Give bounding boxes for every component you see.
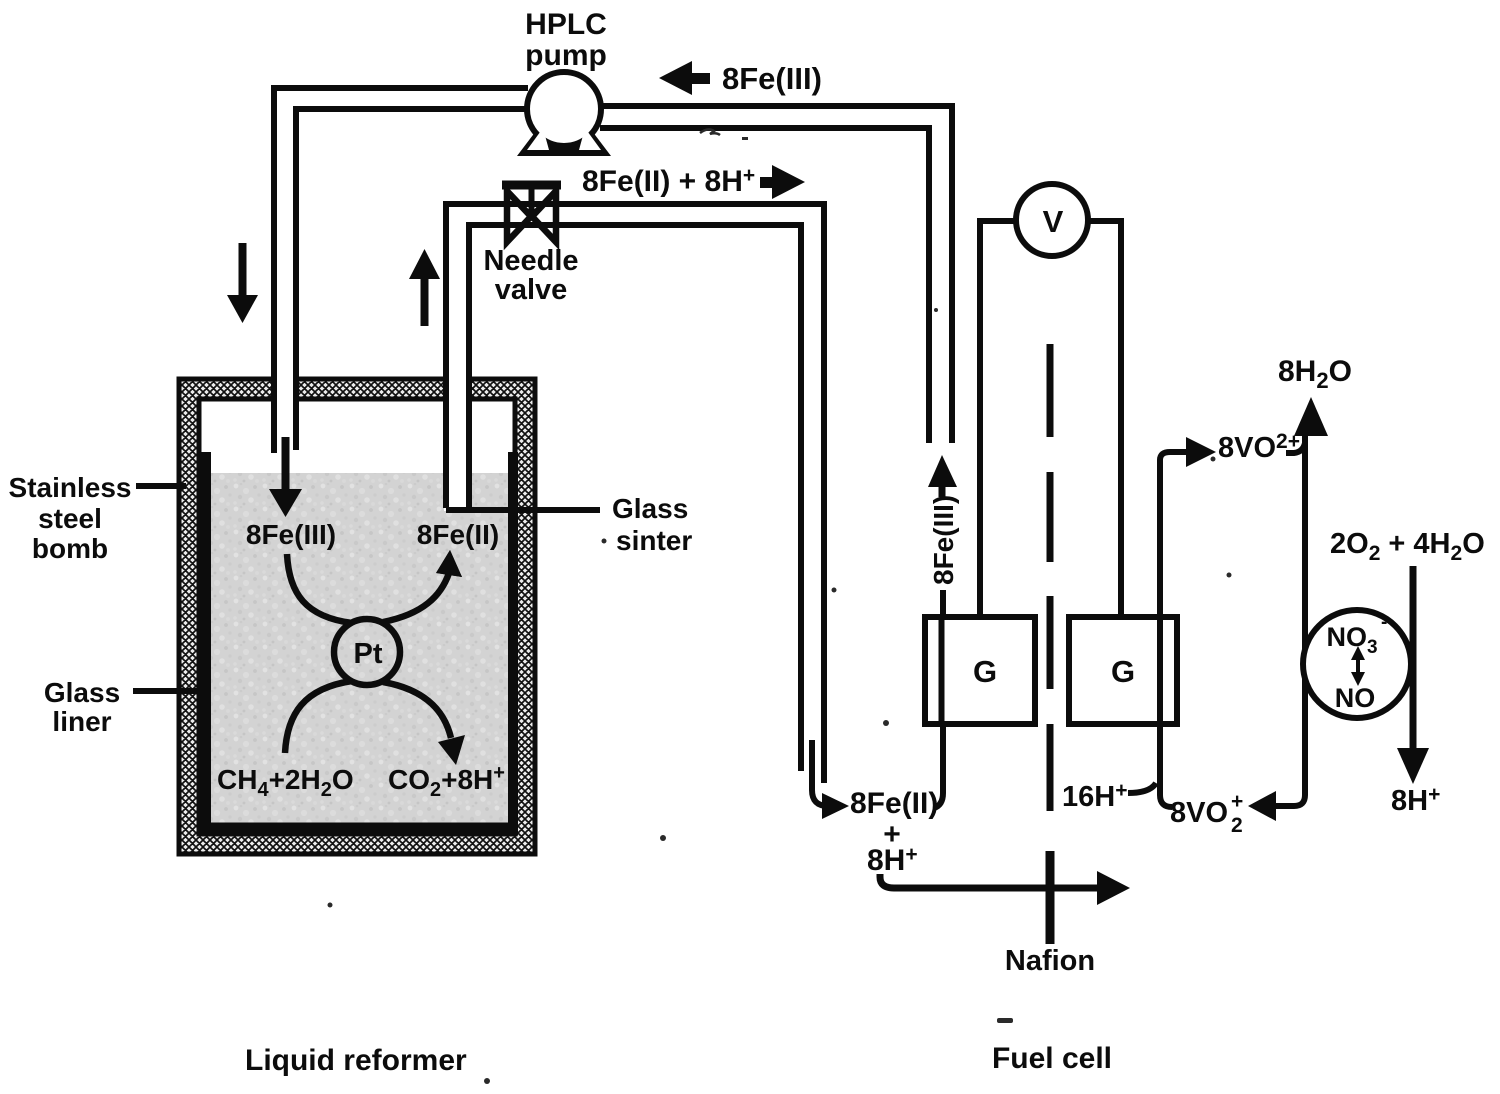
label: Glass liner — [44, 677, 120, 737]
svg-text:8Fe(II): 8Fe(II) — [850, 787, 938, 820]
arrow: upward beside return pipe — [409, 249, 440, 326]
svg-text:Nafion: Nafion — [1005, 945, 1095, 977]
needle valve symbol — [502, 185, 561, 242]
arrow: 8H+ across Nafion (bottom) — [880, 871, 1130, 905]
label: 8H2O with up arrow — [1278, 355, 1352, 436]
hook: 8VO2+ text to riser line — [1286, 443, 1305, 453]
label: 8VO2+ (subscript 2, superscript +) — [1170, 790, 1243, 837]
wire: O2 feed down to 8H+ with arrow — [1397, 566, 1429, 784]
pipe: pump outlet down into reformer (8Fe(III) feed), inner line — [296, 109, 530, 450]
wire: cathode through-line with top hook to 8VO2+ arrow and bottom hook — [1160, 437, 1216, 807]
svg-text:G: G — [1111, 654, 1135, 689]
Nafion membrane dashed line — [1047, 344, 1054, 944]
svg-text:8Fe(II) + 8H+: 8Fe(II) + 8H+ — [582, 164, 755, 198]
svg-text:valve: valve — [495, 274, 568, 306]
svg-text:Fuel cell: Fuel cell — [992, 1042, 1112, 1075]
pipe: pump outlet down into reformer (8Fe(III) feed), outer line — [274, 88, 528, 453]
curved arrow: 8Fe(III) down to Pt — [287, 554, 352, 623]
svg-text:liner: liner — [52, 706, 111, 737]
wire: voltmeter right lead down to right electrode — [1089, 221, 1121, 614]
pipe: reformer glass sinter through needle valve to fuel cell, top line — [446, 204, 824, 783]
svg-text:Liquid reformer: Liquid reformer — [245, 1044, 467, 1077]
hook+arrow: pipe outlet to 8Fe(II) label — [812, 740, 849, 819]
reformer vessel: stainless steel bomb hatched wall — [179, 379, 535, 854]
leader line: glass liner — [133, 688, 206, 694]
svg-text:Needle: Needle — [483, 245, 578, 277]
svg-text:pump: pump — [525, 39, 607, 72]
svg-text:Glass: Glass — [44, 677, 120, 708]
arrow + label: vertical 8Fe(III) at left electrode — [928, 455, 959, 585]
svg-text:NO: NO — [1335, 683, 1376, 713]
label: Stainless steel bomb — [9, 472, 132, 564]
pipe: fuel cell up and back to pump (8Fe(III) return), top line — [600, 106, 952, 443]
left electrode G box — [925, 617, 1035, 724]
wire: riser from 8VO2+ return up to 8H2O arrow — [1276, 434, 1305, 806]
NO3-/NO redox circle — [1303, 610, 1411, 718]
svg-text:Pt: Pt — [354, 638, 383, 670]
white gap where outlet tube crosses vessel wall and liquid — [444, 374, 470, 511]
svg-text:Glass: Glass — [612, 493, 688, 524]
svg-text:steel: steel — [38, 503, 102, 534]
voltmeter V — [1016, 184, 1088, 256]
curved arrow: Pt down to CO2+8H+ (with arrowhead) — [383, 682, 465, 765]
reformer vessel: glass liner — [201, 452, 518, 833]
svg-text:G: G — [973, 654, 997, 689]
svg-text:-: - — [1381, 612, 1387, 633]
curved arrow: CH4+2H2O up to Pt — [285, 681, 352, 753]
svg-text:+: + — [1231, 790, 1243, 813]
svg-text:sinter: sinter — [616, 525, 692, 556]
white gap where inlet tube crosses vessel wall — [272, 374, 298, 453]
svg-text:2O2 + 4H2O: 2O2 + 4H2O — [1330, 528, 1485, 565]
svg-text:HPLC: HPLC — [525, 8, 607, 41]
connector: 16H+ to cathode wire — [1128, 783, 1156, 793]
svg-text:8Fe(III): 8Fe(III) — [928, 495, 959, 585]
svg-text:V: V — [1043, 204, 1064, 239]
svg-text:8H2O: 8H2O — [1278, 355, 1352, 393]
wire: voltmeter left lead down to left electrode — [980, 221, 1016, 614]
arrow: left toward 8VO2+ (bottom) — [1248, 791, 1276, 821]
leader line: glass sinter — [446, 507, 600, 513]
leader line: stainless steel bomb — [136, 483, 186, 489]
svg-text:8Fe(III): 8Fe(III) — [246, 519, 336, 550]
svg-text:2: 2 — [1231, 814, 1243, 837]
label: Glass sinter — [612, 493, 692, 556]
reformer liquid (gray) — [208, 473, 509, 830]
catalyst Pt circle — [334, 619, 400, 685]
label: HPLC pump — [525, 8, 607, 72]
HPLC pump symbol (circle on stand) — [517, 72, 611, 156]
double-headed arrow inside NO3/NO circle — [1351, 646, 1365, 686]
right electrode G box — [1069, 617, 1177, 724]
arrow: 8Fe(III) entering liquid — [269, 437, 302, 517]
wire: 8Fe(II) up through left electrode to 8Fe(III) — [934, 590, 943, 808]
svg-text:8Fe(II): 8Fe(II) — [417, 519, 499, 550]
scan noise marks — [328, 129, 1232, 1084]
svg-text:Stainless: Stainless — [9, 472, 132, 503]
curved arrow: Pt up to 8Fe(II) (with arrowhead) — [383, 550, 462, 622]
pipe: reformer glass sinter through needle valve to fuel cell, bottom line — [469, 225, 801, 771]
svg-text:8VO: 8VO — [1170, 797, 1228, 829]
svg-text:8Fe(III): 8Fe(III) — [722, 61, 822, 96]
arrow: right (8Fe(II)+8H+ flow direction) — [760, 165, 805, 199]
pipe: fuel cell up and back to pump (8Fe(III) return), bottom line — [600, 128, 929, 443]
arrow: 8Fe(III) flow toward pump (left) — [659, 61, 710, 95]
arrow: downward beside feed pipe — [227, 243, 258, 323]
svg-text:bomb: bomb — [32, 533, 108, 564]
label: Needle valve — [483, 245, 578, 306]
